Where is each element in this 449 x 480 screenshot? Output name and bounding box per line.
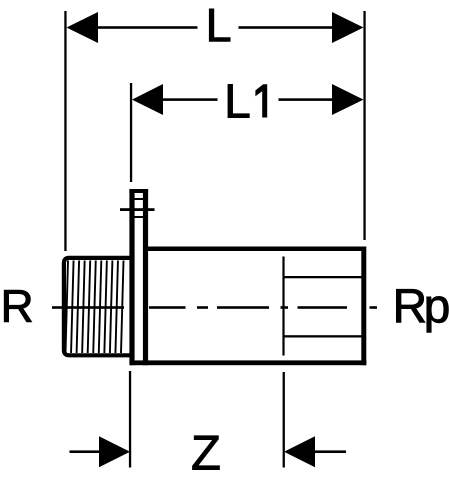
- dimension line L1 right segment: [279, 98, 334, 101]
- extension line right of dimension Z: [283, 372, 285, 468]
- extension line right of dimensions L and L1: [363, 11, 365, 240]
- centerline dash 4: [298, 306, 348, 309]
- internal thread depth line: [282, 257, 284, 356]
- dimension Z left tail: [70, 450, 101, 453]
- collar strip left wall: [129, 189, 134, 365]
- internal thread line lower: [284, 335, 362, 337]
- arrowhead L1 left: [132, 84, 163, 115]
- label Rp letter R: [396, 289, 425, 322]
- tab center tick: [120, 208, 155, 211]
- centerline dash 1: [52, 306, 124, 309]
- arrowhead Z left: [99, 436, 130, 467]
- internal thread line upper: [284, 276, 362, 278]
- body bottom edge: [130, 360, 366, 365]
- body right edge: [361, 247, 366, 366]
- centerline dash 3: [217, 306, 269, 309]
- male thread R outline: [64, 258, 134, 355]
- centerline dot 2: [281, 306, 289, 309]
- centerline dash 2: [149, 306, 186, 309]
- arrowhead L right: [332, 12, 364, 43]
- label L1 digit 1: [255, 84, 267, 117]
- thread hatch lines: [66, 261, 124, 354]
- label L: [209, 9, 230, 41]
- arrowhead Z right: [284, 436, 315, 467]
- label Rp letter p: [427, 297, 449, 333]
- dimension line L left segment: [97, 26, 198, 29]
- body top edge: [145, 247, 366, 252]
- dimension line L1 left segment: [162, 98, 218, 101]
- arrowhead L left: [67, 12, 99, 43]
- arrowhead L1 right: [332, 84, 364, 115]
- tab inner line lower: [135, 216, 144, 218]
- dimension Z right tail: [315, 450, 346, 453]
- collar strip right wall: [143, 189, 148, 365]
- extension line left of dimension Z: [129, 371, 131, 468]
- extension line left of dimension L: [64, 11, 66, 251]
- collar strip top bar: [129, 189, 148, 193]
- centerline dot 1: [197, 306, 208, 309]
- dimension line L right segment: [239, 26, 334, 29]
- label R: [4, 290, 31, 322]
- centerline dot 3: [370, 306, 378, 309]
- tab inner line upper: [135, 198, 144, 200]
- extension line left of dimension L1: [130, 83, 132, 182]
- label L1 letter L: [228, 84, 249, 117]
- label Z: [193, 436, 220, 470]
